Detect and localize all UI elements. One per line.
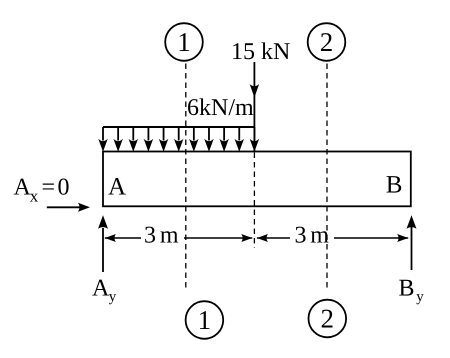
svg-text:15 kN: 15 kN	[231, 39, 290, 65]
section line 1 (dashed)	[185, 64, 187, 290]
distributed load arrow 8	[204, 127, 214, 152]
svg-text:A: A	[108, 173, 126, 200]
centre dashed line at load point	[253, 153, 255, 249]
dimension label 3 m (left)	[144, 223, 179, 249]
svg-text:2: 2	[320, 27, 334, 57]
section line 2 (dashed)	[326, 64, 328, 290]
svg-text:=: =	[42, 174, 56, 200]
svg-text:x: x	[30, 186, 39, 205]
svg-text:2: 2	[321, 304, 335, 334]
distributed load arrow 7	[189, 127, 199, 152]
distributed load arrow 6	[174, 127, 184, 152]
distributed load arrow 3	[129, 127, 139, 152]
dimension label 3 m (right)	[295, 223, 330, 249]
svg-text:m: m	[310, 223, 329, 249]
reaction Ax arrow	[47, 203, 90, 212]
distributed load top line	[103, 126, 254, 128]
section circle 1 (bottom)	[186, 301, 224, 339]
reaction Ay arrow	[98, 215, 108, 272]
distributed load arrow 2	[113, 127, 123, 152]
reaction By arrow	[407, 215, 417, 270]
distributed load arrow 4	[144, 127, 154, 152]
section circle 2 (top)	[308, 23, 346, 61]
distributed load arrow 11	[250, 127, 260, 152]
force 15 kN arrow	[250, 62, 260, 151]
svg-text:0: 0	[58, 174, 70, 200]
svg-text:3: 3	[144, 223, 156, 249]
distributed load arrow 5	[159, 127, 169, 152]
distributed load arrow 9	[219, 127, 229, 152]
svg-text:6kN/m: 6kN/m	[187, 95, 254, 121]
dimension line left span	[105, 234, 253, 242]
svg-text:m: m	[160, 223, 179, 249]
svg-text:B: B	[399, 276, 415, 302]
dimension line right span	[257, 234, 408, 242]
svg-text:1: 1	[198, 305, 212, 335]
svg-text:A: A	[92, 276, 110, 302]
section circle 2 (bottom)	[309, 300, 347, 338]
svg-text:B: B	[386, 172, 403, 199]
distributed load arrow 1	[98, 127, 108, 152]
distributed load arrow 10	[235, 127, 245, 152]
section circle 1 (top)	[165, 23, 203, 61]
svg-text:y: y	[416, 289, 424, 305]
svg-text:3: 3	[295, 223, 307, 249]
svg-text:y: y	[109, 289, 117, 305]
svg-text:1: 1	[177, 27, 191, 57]
beam AB	[103, 152, 411, 207]
svg-text:A: A	[14, 174, 32, 200]
